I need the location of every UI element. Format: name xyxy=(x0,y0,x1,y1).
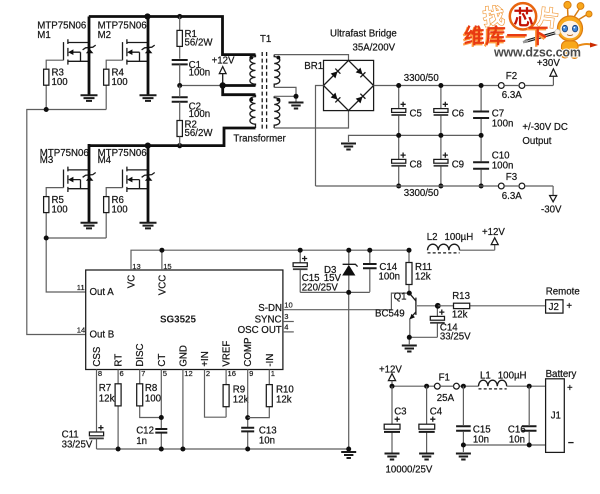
capacitor C13 (10n) xyxy=(241,426,276,447)
svg-text:F3: F3 xyxy=(506,172,517,183)
svg-text:100µH: 100µH xyxy=(498,371,527,382)
svg-text:3300/50: 3300/50 xyxy=(404,188,440,199)
svg-text:6: 6 xyxy=(120,369,124,378)
svg-text:+12V: +12V xyxy=(212,56,235,67)
svg-text:+IN: +IN xyxy=(200,351,211,366)
node junctions on 0V rail xyxy=(396,133,483,138)
svg-text:+30V: +30V xyxy=(537,58,560,69)
svg-text:+12V: +12V xyxy=(482,227,505,238)
svg-text:RT: RT xyxy=(114,354,125,367)
node: C16 junction xyxy=(527,384,532,389)
svg-text:100µH: 100µH xyxy=(445,232,474,243)
svg-text:CT: CT xyxy=(157,354,168,367)
node: pin 15 VCC junction xyxy=(159,248,164,253)
svg-text:10n: 10n xyxy=(473,435,489,446)
svg-text:100n: 100n xyxy=(492,118,514,129)
ground at bridge 0V xyxy=(341,144,356,150)
svg-text:12k: 12k xyxy=(233,394,249,405)
svg-text:3300/50: 3300/50 xyxy=(404,73,440,84)
wire: SG3525 pin 6 RT xyxy=(118,369,124,449)
node: R8/C12/CT junction xyxy=(159,415,164,420)
capacitor C4 (10000/25V) xyxy=(419,386,443,452)
wire: M4 drain-source thick line xyxy=(147,144,150,222)
ground at secondary center tap xyxy=(289,103,304,109)
svg-text:12: 12 xyxy=(184,369,192,378)
svg-text:10000/25V: 10000/25V xyxy=(386,464,433,475)
svg-text:11: 11 xyxy=(77,283,85,292)
node: +12V/C3 junction xyxy=(390,384,395,389)
node: C16 bottom junction xyxy=(527,443,532,448)
node: COMP/R10/C13 junction xyxy=(245,415,250,420)
svg-text:12k: 12k xyxy=(452,309,468,320)
svg-text:33/25V: 33/25V xyxy=(440,332,471,343)
node: C15 ground junction xyxy=(461,443,466,448)
node: ground bus junctions xyxy=(116,447,352,452)
svg-text:10: 10 xyxy=(284,300,292,309)
wire: secondary top to bridge AC1 xyxy=(274,55,348,61)
svg-text:8: 8 xyxy=(98,369,102,378)
transformer T1 secondary bottom winding xyxy=(274,96,280,128)
resistor R13 (12k) xyxy=(438,291,546,321)
svg-text:Out A: Out A xyxy=(90,287,115,298)
svg-text:Ultrafast Bridge: Ultrafast Bridge xyxy=(330,29,397,40)
svg-text:56/2W: 56/2W xyxy=(185,128,214,139)
node: C4 junction xyxy=(424,384,429,389)
svg-text:+/-30V DC: +/-30V DC xyxy=(522,122,568,133)
svg-text:OSC OUT: OSC OUT xyxy=(238,325,282,336)
svg-text:BC549: BC549 xyxy=(375,308,405,319)
node: R3/R4 gate bus junction xyxy=(44,107,49,112)
wire: top rail from M1/M2 drains to transformer primary top xyxy=(89,17,256,55)
node: R5/R6 gate bus junction xyxy=(44,236,49,241)
wire: battery negative bus xyxy=(463,445,545,452)
wire: SG3525 pin 7 DISC xyxy=(140,369,162,418)
node: D3 anode junction xyxy=(346,290,351,295)
transistor M4 (MTP75N06) xyxy=(98,148,155,192)
watermark dzsc.com logo xyxy=(463,1,599,59)
svg-text:220/25V: 220/25V xyxy=(302,282,339,293)
wire: bottom rail from M3/M4 drains to transformer primary bottom xyxy=(89,128,256,146)
wire: +30V rail from bridge + corner xyxy=(374,85,499,87)
svg-text:-IN: -IN xyxy=(265,354,276,367)
svg-text:6.3A: 6.3A xyxy=(502,191,522,202)
svg-text:35A/200V: 35A/200V xyxy=(353,42,396,53)
svg-text:COMP: COMP xyxy=(243,338,254,367)
svg-text:6.3A: 6.3A xyxy=(502,90,522,101)
inductor L1 (100uH) xyxy=(479,371,546,389)
svg-text:100n: 100n xyxy=(189,67,211,78)
node junctions on +30V rail xyxy=(396,83,483,88)
resistor R2 (56/2W) snubber xyxy=(177,119,213,145)
capacitor C5 (3300/50) xyxy=(391,86,421,136)
wire: IC ground bus xyxy=(97,448,349,450)
svg-text:C9: C9 xyxy=(452,159,464,170)
node: secondary center tap junction xyxy=(294,94,299,99)
capacitor C11 (33/25V) xyxy=(62,425,104,450)
svg-text:BR1: BR1 xyxy=(304,61,323,72)
svg-text:R13: R13 xyxy=(452,291,470,302)
svg-text:S-DN: S-DN xyxy=(258,303,282,314)
svg-text:100: 100 xyxy=(112,205,129,216)
capacitor C9 (3300/50) xyxy=(434,135,464,186)
svg-text:100: 100 xyxy=(145,394,162,405)
svg-text:C8: C8 xyxy=(410,159,422,170)
svg-text:3: 3 xyxy=(284,312,288,321)
svg-text:Output: Output xyxy=(522,136,551,147)
svg-text:-30V: -30V xyxy=(541,204,562,215)
ground at C4 xyxy=(419,454,434,460)
diode BR1 top-left (anode left corner, cathode top corner) xyxy=(330,69,340,79)
diode BR1 bottom-left (anode left corner, cathode bottom corner) xyxy=(330,93,340,103)
connector J1 Battery xyxy=(546,369,577,453)
capacitor C16 (10n) xyxy=(508,386,537,445)
resistor R11 (12k) xyxy=(406,248,432,293)
svg-text:VC: VC xyxy=(126,275,137,288)
svg-text:+12V: +12V xyxy=(379,364,402,375)
svg-text:GND: GND xyxy=(178,345,189,367)
wire: secondary bottom to bridge AC2 xyxy=(274,111,348,128)
resistor R4 (100) M2 gate xyxy=(104,60,129,109)
svg-text:M1: M1 xyxy=(37,30,50,41)
power +12V arrow battery input xyxy=(379,364,402,386)
svg-text:13: 13 xyxy=(132,262,140,271)
node junctions on -30V rail xyxy=(396,184,483,189)
svg-text:C12: C12 xyxy=(136,426,154,437)
svg-text:12k: 12k xyxy=(276,394,292,405)
svg-text:Remote: Remote xyxy=(546,287,580,298)
svg-text:100n: 100n xyxy=(492,160,514,171)
IC U1 SG3525 xyxy=(86,270,283,370)
resistor R5 (100) M3 gate xyxy=(44,188,69,238)
wire: SG3525 pin 12 GND xyxy=(183,369,193,449)
diode BR1 bottom-right (anode bottom corner, cathode right corner) xyxy=(356,94,366,104)
svg-text:www.dzsc.com: www.dzsc.com xyxy=(493,46,581,60)
capacitor C3 (10000/25V) xyxy=(384,386,407,452)
wire: SG3525 pin 9 COMP xyxy=(248,369,254,449)
svg-text:L1: L1 xyxy=(480,371,491,382)
wire: Q1 emitter to ground xyxy=(409,337,437,344)
wire: center tap to both primary windings xyxy=(223,86,256,95)
svg-text:1n: 1n xyxy=(136,436,147,447)
svg-text:+: + xyxy=(567,383,573,394)
transformer T1 primary top winding xyxy=(249,55,255,86)
node: R2 bottom junction on bottom rail xyxy=(177,143,182,148)
wire: M1 drain-source thick line xyxy=(88,17,91,95)
wire: M3 drain-source thick line xyxy=(88,144,91,222)
capacitor C10 (100n) xyxy=(473,135,513,186)
svg-text:1: 1 xyxy=(271,369,275,378)
svg-text:+: + xyxy=(566,301,572,312)
transistor M3 (MTP75N06) xyxy=(40,148,96,192)
fuse F3 (6.3A) xyxy=(498,172,553,202)
zener diode D3 (15V) xyxy=(324,248,358,293)
svg-text:C4: C4 xyxy=(430,407,443,418)
capacitor C14 (100n) on VCC xyxy=(363,248,400,292)
node: emitter junction xyxy=(407,335,412,340)
capacitor C15 (10n) xyxy=(456,386,491,445)
resistor R6 (100) M4 gate xyxy=(104,188,129,238)
svg-text:2: 2 xyxy=(206,369,210,378)
fuse F2 (6.3A) xyxy=(498,71,553,101)
wire: SYNC pin 3 stub xyxy=(283,321,294,323)
transformer T1 primary bottom winding xyxy=(249,95,255,128)
capacitor C12 (1n) xyxy=(136,426,167,447)
svg-text:维库一下: 维库一下 xyxy=(464,24,549,48)
transistor M1 (MTP75N06) xyxy=(37,20,95,64)
resistor R9 (12k) xyxy=(223,369,248,407)
node: R1 top junction on top rail xyxy=(177,14,182,19)
power +12V arrow at L2 xyxy=(482,227,505,250)
power +30V arrow xyxy=(537,58,560,85)
watermark text zhao xin pian xyxy=(482,5,560,32)
capacitor C6 (3300/50) xyxy=(434,86,464,136)
resistor R8 (100) xyxy=(137,383,162,406)
svg-text:5: 5 xyxy=(163,369,167,378)
wire: SG3525 pin 5 CT xyxy=(161,369,167,449)
svg-text:F1: F1 xyxy=(439,373,450,384)
svg-text:VREF: VREF xyxy=(222,341,233,367)
wire: SG3525 pin 2 +IN to R9 bottom xyxy=(205,369,227,417)
fuse F1 (25A) xyxy=(434,373,459,404)
capacitor C14 (33/25V) at Q1 base xyxy=(430,303,471,343)
svg-text:100n: 100n xyxy=(379,271,401,282)
svg-text:14: 14 xyxy=(77,325,85,334)
ground at C3 xyxy=(385,454,400,460)
watermark mascot xyxy=(523,1,598,58)
svg-text:33/25V: 33/25V xyxy=(62,439,93,450)
svg-text:M3: M3 xyxy=(40,155,53,166)
svg-text:C5: C5 xyxy=(410,109,422,120)
svg-text:Battery: Battery xyxy=(546,369,577,380)
ground at M3 source xyxy=(81,223,98,229)
svg-text:J2: J2 xyxy=(549,302,559,313)
power -30V arrow xyxy=(541,186,562,215)
svg-text:9: 9 xyxy=(249,369,253,378)
svg-text:C3: C3 xyxy=(394,407,406,418)
svg-text:10n: 10n xyxy=(509,435,525,446)
svg-text:25A: 25A xyxy=(437,393,455,404)
capacitor C8 (3300/50) xyxy=(391,135,421,186)
svg-text:15: 15 xyxy=(163,262,171,271)
wire: OSC OUT pin 4 stub xyxy=(283,331,294,333)
resistor R7 (12k) xyxy=(99,383,121,406)
svg-text:Q1: Q1 xyxy=(394,292,407,303)
label +/-30V DC Output xyxy=(522,122,568,147)
connector J2 Remote xyxy=(546,287,580,313)
capacitor C1 (100n) snubber xyxy=(172,60,210,86)
capacitor C7 (100n) xyxy=(473,86,513,136)
capacitor C15 (220/25V) on VCC xyxy=(293,248,339,294)
svg-text:100: 100 xyxy=(112,77,129,88)
wire: bridge - corner to -30V rail xyxy=(316,86,324,187)
wire: C15/D3/C14 bottoms to ground column xyxy=(300,292,370,449)
svg-text:F2: F2 xyxy=(506,71,517,82)
wire: VCC/VC supply rail above IC xyxy=(131,250,409,270)
svg-text:T1: T1 xyxy=(260,34,271,45)
svg-text:L2: L2 xyxy=(427,232,438,243)
svg-text:VCC: VCC xyxy=(157,275,168,295)
wire: -30V rail xyxy=(316,185,499,187)
wire: battery positive feed xyxy=(392,385,479,387)
ground at main bus xyxy=(341,452,356,458)
ground at Q1 emitter xyxy=(402,346,417,352)
node: C1/C2 junction xyxy=(177,83,182,88)
transistor M2 (MTP75N06) xyxy=(98,20,155,64)
svg-text:J1: J1 xyxy=(551,411,561,422)
svg-text:Transformer: Transformer xyxy=(233,134,286,145)
svg-text:12k: 12k xyxy=(99,394,115,405)
transformer T1 core xyxy=(262,52,266,131)
svg-text:7: 7 xyxy=(141,369,145,378)
bridge rectifier BR1 xyxy=(324,60,374,110)
svg-text:100: 100 xyxy=(52,205,69,216)
capacitor C2 (100n) snubber xyxy=(172,86,210,121)
node: C15 branch junction xyxy=(461,384,466,389)
ground at M1 source xyxy=(81,95,98,101)
diode BR1 top-right (anode top corner, cathode right corner) xyxy=(356,67,366,77)
svg-text:15V: 15V xyxy=(324,273,342,284)
transistor Q1 (BC549) xyxy=(375,291,438,338)
node: M2 drain junction on top rail xyxy=(144,13,150,19)
svg-text:56/2W: 56/2W xyxy=(185,38,214,49)
svg-text:12k: 12k xyxy=(415,271,431,282)
wire: snubber midpoint to +12V center tap xyxy=(180,85,223,87)
svg-text:Out B: Out B xyxy=(90,330,115,341)
svg-text:M2: M2 xyxy=(98,30,111,41)
wire: mid 0V rail with ground stub xyxy=(349,135,482,142)
wire: secondary center tap to ground xyxy=(274,87,296,101)
wire: S-DN pin 10 to Q1 collector xyxy=(283,293,409,310)
node: center tap junction xyxy=(220,82,226,88)
svg-text:16: 16 xyxy=(228,369,236,378)
ground at battery negative xyxy=(456,454,471,460)
resistor R3 (100) M1 gate xyxy=(44,60,69,109)
wire: M2 drain-source thick line xyxy=(147,17,150,95)
svg-text:4: 4 xyxy=(284,322,288,331)
svg-text:M4: M4 xyxy=(98,155,112,166)
node: M4 drain junction on bottom rail xyxy=(145,143,151,149)
svg-text:100: 100 xyxy=(52,77,69,88)
svg-text:10n: 10n xyxy=(259,436,275,447)
resistor R1 (56/2W) snubber xyxy=(177,17,213,59)
wire: Out A net from gates of M3/M4 to pin 11 xyxy=(46,238,106,292)
ground at M2 source xyxy=(140,95,157,101)
inductor L2 (100uH) xyxy=(427,232,495,253)
svg-text:SG3525: SG3525 xyxy=(160,314,197,325)
watermark magnifier with chip character xyxy=(510,3,536,29)
wire: SG3525 pin 8 CSS xyxy=(97,369,103,432)
svg-text:CSS: CSS xyxy=(92,346,103,366)
resistor R10 (12k) xyxy=(248,369,295,418)
svg-text:DISC: DISC xyxy=(135,343,146,366)
svg-text:C6: C6 xyxy=(452,109,464,120)
power +12V center tap arrow xyxy=(212,56,235,86)
ground at M4 source xyxy=(140,223,157,229)
transformer T1 secondary top winding xyxy=(274,55,280,88)
wire: Out B net from gates of M1/M2 down left side to pin 14 xyxy=(27,110,106,335)
